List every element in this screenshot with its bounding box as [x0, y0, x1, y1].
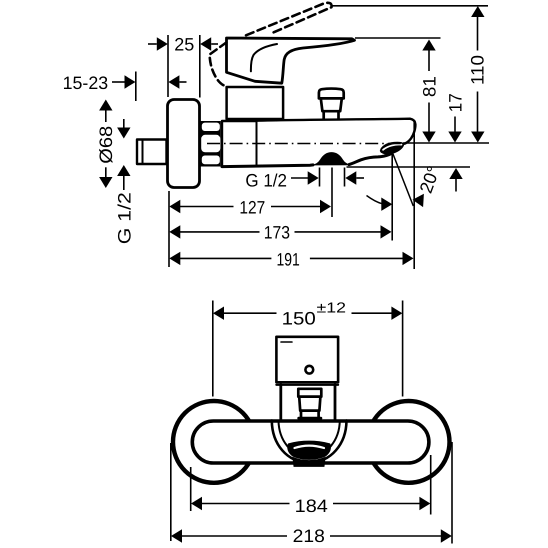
- svg-text:G 1/2: G 1/2: [115, 192, 135, 244]
- ext line flange front (x=168): [167, 35, 169, 97]
- right escutcheon circle: [368, 401, 450, 483]
- spout front outer U: [272, 421, 347, 463]
- handle open position (dashed) left: [210, 43, 227, 86]
- tower base line: [276, 384, 338, 386]
- svg-text:218: 218: [293, 526, 325, 546]
- dimension 218: [171, 526, 452, 546]
- handle open position (dashed) upper: [246, 3, 332, 35]
- dimension 184: [191, 496, 430, 516]
- spout mouth (black): [288, 441, 331, 459]
- ext line nipple left (x=135.8): [135, 72, 137, 102]
- 20deg diagonal: [393, 154, 414, 207]
- tower chamfer line: [281, 341, 292, 343]
- ext line 218 right: [451, 442, 453, 544]
- spout tip outlet crescent: [380, 142, 404, 154]
- neck sides: [279, 385, 282, 419]
- wall nipple (S-union): [137, 140, 167, 165]
- spout pedestal (black): [293, 458, 325, 467]
- ext line 184 left: [190, 467, 192, 511]
- dimension 81: [420, 40, 440, 143]
- body bar pill: [192, 421, 429, 463]
- thread section (S-union nut): [199, 121, 221, 167]
- svg-text:Ø68: Ø68: [96, 126, 116, 164]
- ext line left dims (x=169): [168, 191, 170, 267]
- dimension 150 +-12: [213, 300, 402, 328]
- dimension 15-23: [63, 73, 187, 93]
- handle lever (closed position): [227, 38, 355, 83]
- handle sculpt inner curve: [251, 44, 277, 71]
- ext line 150 right: [402, 301, 404, 397]
- left escutcheon circle: [173, 401, 255, 483]
- diverter knob front: [298, 389, 321, 418]
- dimension 191: [169, 250, 413, 270]
- centerline dash-dot: [207, 143, 403, 145]
- spout front inner U: [279, 421, 340, 457]
- svg-text:150: 150: [282, 308, 316, 328]
- dimension 173: [169, 223, 391, 243]
- svg-text:184: 184: [295, 496, 328, 516]
- body-spout junction line: [256, 121, 258, 167]
- spout outline: [257, 119, 416, 144]
- centerline baseline solid right: [403, 142, 489, 144]
- ext line outlet center (x=332): [331, 168, 333, 218]
- svg-text:17: 17: [446, 93, 466, 112]
- set screw: [305, 366, 313, 374]
- ext line outlet left (x=319.5): [319, 168, 321, 187]
- ext line spout tip A (x=392.2): [391, 155, 393, 241]
- valve body cylinder: [222, 121, 257, 167]
- angle 20deg: [367, 163, 444, 211]
- ext line top of closed handle (y=38): [355, 37, 441, 39]
- dimension 25: [148, 35, 218, 55]
- svg-text:173: 173: [264, 223, 290, 243]
- dimension Ø68: [96, 100, 116, 189]
- svg-text:25: 25: [174, 35, 194, 55]
- label G1/2 nipple (vertical): [115, 119, 135, 244]
- cartridge tower: [276, 337, 338, 383]
- ext line spout tip B (x=414.2): [413, 122, 415, 270]
- svg-text:G 1/2: G 1/2: [245, 170, 287, 190]
- ext line 150 left: [212, 301, 214, 397]
- bottom outlet dome G1/2: [314, 153, 350, 165]
- ext line top of open handle (y=5.8): [331, 5, 488, 7]
- dimension 17: [446, 93, 466, 191]
- ext line 184 right: [430, 455, 432, 515]
- svg-text:191: 191: [276, 250, 299, 270]
- ext line outlet right (x=344.5): [344, 168, 346, 187]
- cartridge housing box: [227, 87, 284, 119]
- dimension 127: [169, 198, 331, 218]
- svg-text:81: 81: [420, 76, 440, 97]
- svg-text:110: 110: [468, 55, 488, 85]
- svg-text:±12: ±12: [317, 300, 347, 316]
- label G 1/2 outlet (horizontal): [245, 170, 364, 190]
- dimension 110: [468, 6, 488, 143]
- ext line wall plane (x=199.8): [199, 35, 201, 98]
- diverter knob (top of spout): [319, 89, 344, 120]
- ext line 218 left: [170, 443, 172, 541]
- svg-text:127: 127: [239, 198, 265, 218]
- spout underside: [222, 153, 392, 166]
- wall escutcheon flange: [168, 100, 200, 188]
- svg-text:15-23: 15-23: [63, 73, 109, 93]
- 20deg baseline (y=166.2): [347, 166, 471, 168]
